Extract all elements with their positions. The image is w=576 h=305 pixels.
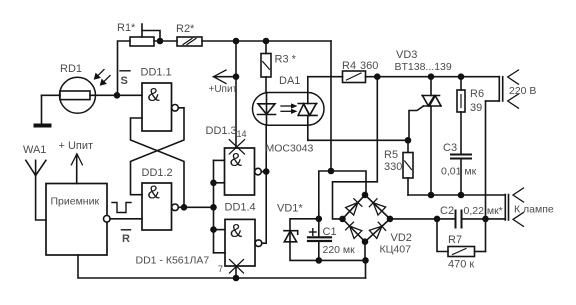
svg-text:220 мк: 220 мк: [323, 244, 356, 256]
svg-text:VD3: VD3: [396, 49, 417, 61]
wire: mains bottom line: [485, 101, 487, 252]
resistor R2: [176, 23, 202, 46]
svg-text:S: S: [121, 75, 128, 87]
diode (bridge top-right): [369, 199, 385, 215]
node: RD1 output junction: [114, 92, 121, 99]
node: [157, 38, 164, 45]
DA1 photo-triac: [298, 93, 317, 126]
svg-text:R6: R6: [470, 88, 484, 100]
wire: node A to bridge top: [331, 171, 366, 195]
receiver +Upit arrow: [59, 140, 94, 184]
wire: [214, 252, 226, 254]
svg-text:39: 39: [470, 102, 482, 114]
resistor R1 (trimmer): [117, 22, 160, 46]
receiver box (Приемник): [46, 184, 110, 256]
svg-text:R2*: R2*: [176, 23, 195, 35]
wire: mains to bridge AC left: [333, 77, 378, 219]
pin 7 cross mark: [218, 260, 244, 275]
wire: bridge right to C2: [390, 218, 456, 220]
svg-text:BT138...139: BT138...139: [395, 61, 452, 73]
gate DD1.2: [142, 167, 179, 230]
node: bridge right: [387, 216, 394, 223]
wire: pin7 to bus: [235, 266, 237, 278]
wire: DD1.2 output: [178, 206, 213, 208]
power tap +Upit arrow: [209, 70, 238, 95]
svg-text:R: R: [122, 233, 130, 245]
wire: [214, 182, 225, 184]
diode (bridge top-left): [346, 199, 362, 215]
pin 14 cross mark: [229, 129, 246, 154]
wire: receiver ground to bottom bus: [78, 255, 366, 278]
svg-text:MOC3043: MOC3043: [266, 143, 314, 155]
gate DD1.3: [206, 125, 262, 195]
wire: DD1.4 output up to LED cathode line: [262, 125, 266, 243]
label R with overline: [122, 230, 131, 245]
svg-text:&: &: [148, 84, 161, 105]
svg-text:+Uпит: +Uпит: [209, 84, 238, 95]
node: [210, 226, 217, 233]
wire: bridge bottom to ground bus: [364, 242, 366, 261]
resistor R3: [261, 41, 297, 93]
node: bridge top: [362, 192, 369, 199]
node: [458, 73, 465, 80]
svg-text:Приемник: Приемник: [51, 196, 100, 208]
node: [316, 216, 323, 223]
svg-text:RD1: RD1: [60, 63, 82, 75]
node: bridge left: [339, 216, 346, 223]
svg-text:DD1.4: DD1.4: [225, 202, 256, 214]
svg-text:+ Uпит: + Uпит: [59, 140, 94, 152]
svg-text:VD2: VD2: [391, 232, 412, 244]
capacitor C3: [441, 112, 477, 195]
svg-text:360: 360: [360, 60, 378, 72]
svg-text:220 В: 220 В: [509, 85, 536, 97]
svg-text:КЦ407: КЦ407: [380, 244, 412, 256]
bridge rectifier VD2: [343, 195, 412, 256]
antenna WA1: [23, 144, 46, 220]
wire: [154, 40, 177, 42]
svg-text:C2: C2: [440, 205, 454, 217]
wire: gate input rail: [213, 160, 215, 252]
svg-text:К лампе: К лампе: [514, 204, 554, 216]
ground: [34, 95, 52, 127]
svg-text:R1*: R1*: [117, 22, 136, 34]
node: [434, 216, 441, 223]
svg-text:VD1*: VD1*: [277, 203, 303, 215]
DA1 LED: [258, 93, 276, 126]
svg-text:C1: C1: [323, 226, 337, 238]
svg-text:0,01 мк: 0,01 мк: [441, 166, 477, 178]
connector X1 220V: [486, 70, 537, 108]
svg-text:7: 7: [218, 264, 223, 274]
wire: [319, 259, 366, 261]
svg-text:C3: C3: [443, 142, 457, 154]
node: [374, 73, 381, 80]
pulse waveform symbol: [112, 203, 131, 213]
svg-text:DD1.1: DD1.1: [141, 67, 172, 79]
resistor R7: [437, 219, 486, 271]
wire: +U top bus: [202, 40, 331, 42]
svg-text:R4: R4: [342, 60, 356, 72]
svg-text:14: 14: [237, 129, 247, 139]
svg-text:R3 *: R3 *: [275, 54, 297, 66]
node: [263, 38, 270, 45]
node: [263, 168, 270, 175]
node: [316, 257, 323, 264]
diode (bridge bottom-right): [369, 222, 385, 238]
node: [428, 192, 435, 199]
node: bridge bottom: [362, 238, 369, 245]
wire: +U bus down to bridge +: [330, 41, 332, 171]
optocoupler DA1 MOC3043: [253, 75, 325, 155]
wire: RS cross coupling: [131, 108, 185, 208]
node: [210, 204, 217, 211]
zener VD1: [277, 203, 319, 261]
svg-text:DD1.2: DD1.2: [142, 167, 173, 179]
node: [233, 73, 240, 80]
node A: [328, 168, 335, 175]
svg-text:R7: R7: [448, 234, 462, 246]
node: [210, 180, 217, 187]
DA1 light arrows: [281, 103, 298, 114]
wire: [118, 41, 131, 95]
photoresistor RD1: [42, 63, 118, 113]
resistor R5: [384, 140, 413, 195]
wire: opto triac top to R4: [308, 77, 343, 93]
node: [233, 38, 240, 45]
svg-text:0,22 мк*: 0,22 мк*: [464, 205, 503, 217]
node: pin7 junction: [233, 275, 240, 282]
wire: [214, 229, 226, 231]
node: [428, 73, 435, 80]
gate DD1.1: [141, 67, 179, 132]
node: gate/R5 junction: [405, 137, 412, 144]
wire: node A to C1 top: [319, 171, 331, 219]
resistor R6: [457, 77, 484, 114]
wire: [365, 260, 367, 278]
wire: receiver to DD1.2 input: [110, 218, 142, 220]
node: [458, 192, 465, 199]
wire: DD power pin line: [235, 41, 237, 148]
svg-text:DD1.3: DD1.3: [206, 125, 237, 137]
wire: lamp bus: [408, 194, 505, 196]
node: [362, 257, 369, 264]
capacitor C2: [440, 205, 503, 228]
wire: [214, 159, 225, 161]
diode (bridge bottom-left): [346, 222, 362, 238]
svg-text:&: &: [148, 182, 161, 203]
svg-text:330: 330: [384, 161, 402, 173]
gate DD1.4: [225, 202, 262, 267]
node: [181, 204, 188, 211]
svg-text:R5: R5: [384, 149, 398, 161]
wire: [117, 94, 142, 96]
wire: opto triac bottom to gate node: [308, 125, 408, 140]
svg-text:DA1: DA1: [279, 75, 300, 87]
label S with overline: [120, 71, 130, 87]
capacitor C1: [308, 219, 355, 261]
svg-text:470 к: 470 к: [448, 259, 474, 271]
triac VD3: [395, 49, 452, 195]
wire: DD1.3 output: [261, 171, 266, 173]
wire: mains top bus: [366, 76, 500, 78]
node: [482, 216, 489, 223]
resistor R4: [342, 60, 378, 83]
svg-text:WA1: WA1: [23, 144, 46, 156]
connector X2 to lamp: [505, 188, 554, 226]
wire: [462, 218, 506, 220]
svg-text:DD1 - К561ЛА7: DD1 - К561ЛА7: [136, 255, 210, 267]
svg-text:&: &: [230, 220, 243, 241]
